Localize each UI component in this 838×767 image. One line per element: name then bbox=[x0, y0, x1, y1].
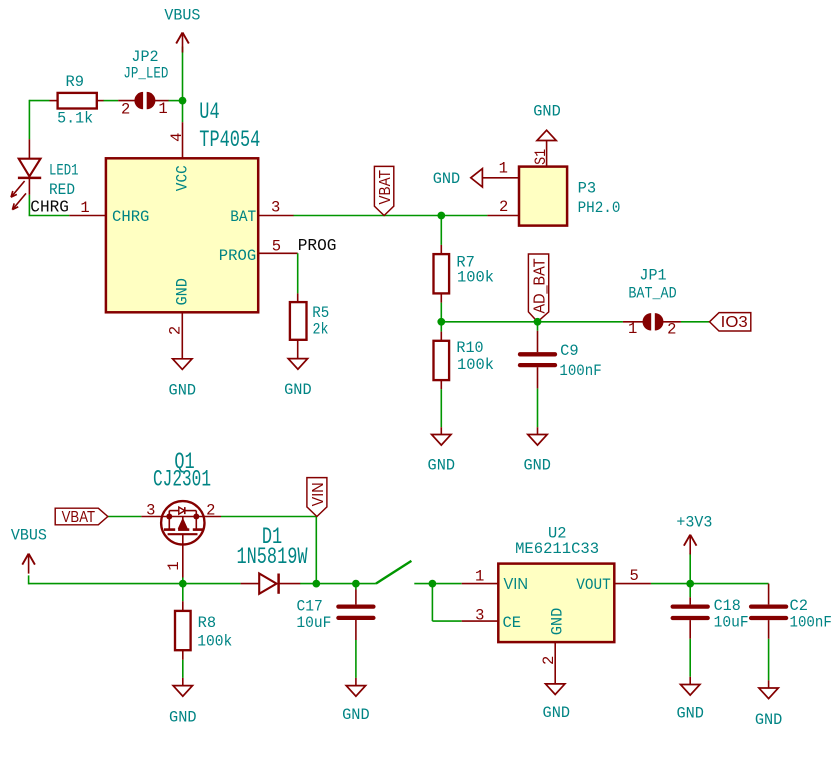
svg-text:CHRG: CHRG bbox=[112, 208, 149, 226]
svg-text:GND: GND bbox=[428, 456, 456, 474]
svg-text:5: 5 bbox=[630, 567, 639, 585]
svg-text:10uF: 10uF bbox=[714, 614, 749, 632]
svg-text:VBAT: VBAT bbox=[62, 509, 96, 526]
svg-text:JP2: JP2 bbox=[131, 48, 158, 66]
svg-text:IO3: IO3 bbox=[721, 314, 748, 331]
svg-text:VIN: VIN bbox=[310, 482, 327, 506]
svg-text:GND: GND bbox=[342, 706, 370, 724]
svg-text:VOUT: VOUT bbox=[576, 576, 611, 594]
svg-text:GND: GND bbox=[533, 102, 561, 120]
svg-text:2k: 2k bbox=[313, 321, 329, 339]
svg-text:VIN: VIN bbox=[504, 576, 529, 593]
svg-text:GND: GND bbox=[169, 381, 197, 399]
svg-text:GND: GND bbox=[676, 705, 704, 723]
svg-text:100k: 100k bbox=[457, 269, 494, 287]
svg-text:GND: GND bbox=[174, 278, 192, 306]
svg-text:GND: GND bbox=[523, 456, 551, 474]
svg-text:PH2.0: PH2.0 bbox=[578, 199, 621, 217]
svg-text:C18: C18 bbox=[714, 597, 741, 615]
svg-text:3: 3 bbox=[271, 198, 280, 216]
svg-text:1: 1 bbox=[499, 160, 508, 178]
svg-text:AD_BAT: AD_BAT bbox=[531, 258, 548, 313]
svg-text:1: 1 bbox=[475, 568, 484, 586]
svg-text:VCC: VCC bbox=[174, 165, 192, 191]
svg-text:PROG: PROG bbox=[219, 247, 256, 265]
svg-text:VBUS: VBUS bbox=[11, 527, 47, 545]
svg-text:TP4054: TP4054 bbox=[199, 127, 260, 153]
svg-text:PROG: PROG bbox=[298, 236, 337, 255]
svg-text:3: 3 bbox=[475, 607, 484, 625]
svg-text:C9: C9 bbox=[560, 342, 579, 360]
svg-text:100nF: 100nF bbox=[559, 362, 601, 380]
svg-text:LED1: LED1 bbox=[49, 162, 79, 180]
svg-text:GND: GND bbox=[755, 711, 783, 729]
svg-text:2: 2 bbox=[121, 101, 130, 119]
svg-text:1: 1 bbox=[628, 320, 637, 338]
svg-text:JP_LED: JP_LED bbox=[123, 64, 168, 82]
svg-text:ME6211C33: ME6211C33 bbox=[515, 540, 599, 558]
svg-text:+3V3: +3V3 bbox=[676, 514, 712, 532]
svg-text:R9: R9 bbox=[66, 73, 85, 91]
svg-text:RED: RED bbox=[49, 181, 75, 199]
svg-text:R5: R5 bbox=[312, 304, 329, 322]
svg-text:CHRG: CHRG bbox=[30, 198, 69, 217]
svg-text:VBUS: VBUS bbox=[164, 7, 200, 25]
svg-text:GND: GND bbox=[169, 708, 197, 726]
svg-text:2: 2 bbox=[166, 326, 184, 335]
svg-text:5: 5 bbox=[272, 237, 281, 255]
svg-text:GND: GND bbox=[549, 608, 567, 636]
svg-text:1: 1 bbox=[165, 561, 183, 570]
svg-text:P3: P3 bbox=[578, 180, 597, 198]
svg-text:VBAT: VBAT bbox=[377, 170, 394, 205]
svg-text:R10: R10 bbox=[456, 339, 483, 357]
svg-text:BAT_AD: BAT_AD bbox=[628, 285, 676, 303]
svg-text:2: 2 bbox=[206, 502, 215, 520]
svg-text:2: 2 bbox=[667, 321, 676, 339]
svg-text:1: 1 bbox=[80, 199, 89, 217]
svg-text:GND: GND bbox=[433, 170, 461, 188]
svg-text:GND: GND bbox=[284, 381, 312, 399]
svg-text:CE: CE bbox=[503, 614, 522, 632]
svg-text:2: 2 bbox=[499, 198, 508, 216]
svg-text:1N5819W: 1N5819W bbox=[237, 544, 308, 570]
svg-text:2: 2 bbox=[540, 656, 558, 665]
svg-text:100k: 100k bbox=[457, 356, 494, 374]
svg-text:R8: R8 bbox=[198, 614, 217, 632]
svg-text:CJ2301: CJ2301 bbox=[153, 467, 211, 493]
svg-text:10uF: 10uF bbox=[296, 614, 331, 632]
svg-text:4: 4 bbox=[168, 133, 186, 142]
svg-text:C17: C17 bbox=[297, 598, 323, 616]
svg-text:C2: C2 bbox=[790, 597, 809, 615]
svg-text:GND: GND bbox=[543, 704, 571, 722]
svg-text:U4: U4 bbox=[199, 99, 219, 125]
svg-text:JP1: JP1 bbox=[639, 267, 666, 285]
svg-text:100k: 100k bbox=[197, 633, 232, 651]
svg-text:100nF: 100nF bbox=[790, 614, 832, 632]
svg-text:BAT: BAT bbox=[230, 208, 256, 226]
svg-text:S1: S1 bbox=[532, 149, 550, 165]
svg-text:5.1k: 5.1k bbox=[57, 109, 93, 127]
svg-text:3: 3 bbox=[146, 502, 155, 520]
svg-text:1: 1 bbox=[158, 100, 167, 118]
